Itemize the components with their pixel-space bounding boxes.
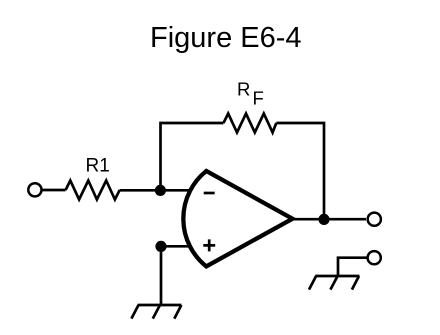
wire noninverting input: [161, 245, 190, 248]
ground terminal circle: [368, 251, 381, 264]
wire top-left feedback segment: [161, 123, 224, 190]
plus sign noninverting input: [203, 239, 215, 251]
ground G1 hatch 3: [174, 305, 181, 319]
wire output: [293, 218, 367, 221]
resistor R1: [66, 181, 120, 200]
resistor RF: [224, 114, 277, 133]
junction node noninverting input: [155, 241, 166, 252]
wire input to R1: [42, 189, 66, 192]
ground G2 hatch 2: [330, 276, 337, 290]
wire top-right feedback segment: [276, 123, 324, 219]
svg-text:R1: R1: [86, 156, 110, 177]
ground G1 hatch 1: [131, 305, 138, 319]
ground G2 hatch 3: [352, 276, 359, 290]
junction node inverting input: [155, 185, 166, 196]
svg-text:F: F: [253, 87, 264, 108]
svg-text:R: R: [237, 78, 250, 99]
ground G2 bar: [315, 275, 359, 278]
wire ground terminal: [338, 258, 367, 276]
minus sign inverting input: [204, 192, 215, 195]
output terminal: [368, 213, 381, 226]
wire noninverting to ground: [160, 246, 163, 305]
input terminal: [28, 183, 41, 196]
ground G2 hatch 1: [309, 276, 316, 290]
junction node output: [318, 214, 329, 225]
op-amp U1: [183, 171, 292, 266]
ground G1 hatch 2: [153, 305, 160, 319]
ground G1 bar: [138, 304, 182, 307]
wire R1 to inverting input: [120, 189, 190, 192]
svg-text:Figure E6-4: Figure E6-4: [150, 22, 302, 54]
